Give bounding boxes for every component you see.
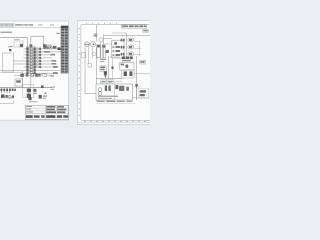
relay K1 box — [14, 41, 23, 47]
wire label row4 — [26, 55, 36, 58]
solenoid L1 body — [28, 97, 31, 100]
side label box — [140, 60, 146, 64]
terminal label row6 — [52, 63, 57, 65]
wire header stub — [112, 32, 127, 34]
wire row 3 — [24, 54, 53, 56]
caption text row 4 — [126, 101, 132, 102]
wire cluster feed — [110, 56, 120, 58]
title block dense cell 6 — [63, 115, 68, 118]
manifold pin 2 — [112, 50, 114, 51]
terminal strip T1 pin3 tick — [6, 91, 9, 93]
title block text r1c — [57, 106, 64, 108]
header note text 4 — [50, 24, 54, 25]
driver pair 1b — [123, 39, 125, 42]
wire drop f — [126, 33, 128, 58]
contact row9 blob b — [34, 72, 36, 75]
contact row1 blob c — [39, 48, 41, 50]
logic box 1 — [120, 62, 134, 70]
revision box C — [10, 24, 14, 27]
title block divider v1 — [44, 105, 46, 119]
contact row1 blob b — [34, 48, 36, 51]
sensor box — [88, 63, 91, 67]
relay label box a — [101, 80, 107, 84]
header sub label — [143, 29, 149, 32]
switch S1 label — [9, 46, 13, 47]
transformer coil 2 — [108, 86, 110, 91]
logic box 2 — [122, 70, 134, 78]
manifold pin 1 — [112, 46, 114, 47]
logic box 2 coil b — [129, 71, 132, 76]
revision box B text — [5, 24, 9, 25]
transformer coil 4 — [122, 86, 124, 91]
header note text 3 — [38, 24, 43, 25]
title block dense cell 1 — [26, 115, 33, 118]
terminal label row3 — [51, 54, 56, 56]
contact row7 blob b — [34, 66, 36, 69]
parts list header cell — [61, 26, 68, 28]
motor M2 lower brush — [27, 94, 31, 98]
coil O2 — [128, 45, 134, 49]
wire vertical x30 lower — [30, 77, 32, 88]
wire feeder top — [104, 35, 150, 37]
valve V1 — [39, 95, 42, 99]
transformer core — [115, 85, 118, 89]
control box text 2 — [100, 69, 104, 70]
lamp ring row1b dot — [50, 47, 51, 48]
gauge G1 — [99, 38, 103, 42]
net stub label — [57, 33, 60, 34]
wire long mid 2 — [110, 81, 122, 83]
contact row6 blob a — [26, 63, 28, 66]
pump P2 — [91, 42, 96, 47]
wire row 7 — [24, 66, 58, 68]
contact row2 ring b — [36, 51, 39, 53]
wire row 4 — [24, 57, 53, 59]
title block row line 1 — [25, 107, 68, 109]
ground lug cluster — [1, 94, 5, 98]
title block text r2b — [46, 109, 55, 111]
relay label box b — [107, 80, 113, 84]
terminal strip T1 pin2 — [3, 89, 5, 92]
dense cluster text — [122, 60, 130, 61]
spare contact tick — [45, 93, 47, 95]
contact row8 blob a — [26, 69, 28, 72]
connector J2 label — [16, 80, 21, 83]
terminal strip T1 pin6 — [14, 89, 16, 91]
inline valve symbol — [94, 34, 97, 37]
terminal strip T1 pin4 — [9, 89, 11, 92]
ground lug cluster b — [5, 95, 7, 98]
contact row5 blob c — [39, 60, 41, 62]
wire elbow — [85, 92, 96, 94]
wire label row9 — [26, 70, 36, 73]
wire out right — [132, 97, 150, 99]
terminal strip T1 pin5 — [12, 89, 14, 92]
relay label box b text — [108, 81, 112, 83]
title block dense cell 2 — [34, 115, 40, 118]
contact row6 ring — [30, 63, 33, 66]
switch pair box a — [44, 47, 46, 49]
terminal strip T1 pin1 tick — [0, 91, 3, 93]
terminal strip T1 pin3 — [6, 89, 8, 92]
revision box A — [0, 24, 3, 27]
contact row7 blob a — [26, 66, 28, 69]
terminal label row7 — [53, 66, 58, 68]
wire coil out 2 — [134, 47, 141, 49]
wire bus horizontal — [0, 87, 52, 89]
logic box 1 mark — [121, 64, 124, 66]
valve V1 label2 — [43, 98, 46, 99]
logic box 2 coil a — [124, 71, 127, 76]
sensor blob on drop h — [111, 66, 113, 69]
left ruler ticks — [78, 28, 80, 116]
title block dense cell 4 — [46, 115, 55, 118]
wire drop d — [95, 47, 97, 84]
header cell block — [122, 24, 147, 28]
pump P1 mark b — [88, 44, 89, 46]
wire label row1 — [26, 46, 36, 49]
wire vertical x22 — [21, 71, 23, 88]
contact row5 blob b — [34, 60, 36, 63]
wire long mid — [96, 78, 122, 80]
coil O1 — [128, 38, 134, 42]
header note text 1 — [15, 24, 22, 25]
header note text 2 — [23, 24, 28, 25]
terminal label row5 — [52, 60, 57, 62]
pump P1 mark a — [85, 44, 86, 46]
driver pair 3a — [121, 53, 123, 56]
title block divider v2 — [55, 105, 57, 113]
parts list dense text body — [61, 29, 68, 73]
wire bottom left L — [0, 100, 14, 103]
switch pair box b — [46, 47, 48, 49]
sheet 2 (right schematic page) — [77, 21, 152, 125]
control box text 1 — [100, 67, 105, 68]
tag label right — [51, 75, 54, 76]
note text small — [3, 97, 13, 98]
contact row3 blob c — [39, 54, 41, 56]
lamp ring row1b — [49, 46, 52, 49]
driver pair 2b — [123, 46, 125, 49]
logic box 1 core — [126, 65, 129, 68]
bus wire vertical — [30, 36, 32, 73]
manifold row 2 — [116, 50, 120, 52]
aux ring — [31, 74, 34, 77]
wire drop a — [84, 47, 86, 93]
wire row 9 — [24, 72, 59, 74]
contact row7 ring b — [36, 66, 39, 68]
power unit text row 2 — [98, 98, 112, 99]
wire row 6 — [14, 63, 58, 65]
wire top bracket — [31, 36, 44, 44]
contact row7 ring — [30, 66, 33, 69]
contact row3 blob a — [26, 54, 28, 57]
terminal label row9 — [53, 72, 58, 74]
contact row4 ring b — [36, 57, 39, 59]
driver blob 3 — [114, 42, 117, 44]
title note text — [1, 32, 13, 33]
motor label a — [33, 93, 36, 94]
parts list column frame — [61, 26, 68, 73]
transformer coil 1 — [105, 86, 107, 91]
connector J2 box — [15, 79, 22, 86]
aux contact c — [35, 74, 38, 77]
contact row6 ring b — [36, 63, 39, 65]
relay K1 top label — [14, 38, 20, 41]
shield lug — [12, 95, 14, 98]
wire drop g — [108, 56, 110, 79]
contact row6 blob c — [39, 63, 41, 65]
wire diode stub — [133, 86, 140, 88]
wire gauge drop — [100, 42, 102, 59]
wire tag lead — [47, 74, 53, 76]
wire drop c — [91, 47, 93, 58]
wire label row8 — [26, 67, 36, 70]
coil O1 mark — [129, 39, 133, 41]
cylinder C2 cap — [102, 45, 105, 47]
contact row4 ring — [30, 56, 33, 59]
sensor under pump — [93, 53, 96, 56]
node tie row1 — [58, 47, 61, 50]
contact row3 blob b — [34, 54, 36, 57]
fuse F1 — [43, 44, 47, 47]
flag tag — [42, 74, 47, 77]
revision box B — [4, 24, 9, 27]
transformer coil 3 — [119, 86, 122, 91]
terminal strip T1 pin1 — [1, 89, 3, 92]
motor enclosure box — [23, 84, 34, 97]
reservoir box — [82, 52, 86, 57]
solenoid blob — [104, 71, 107, 75]
contact row2 ring — [30, 50, 33, 53]
note above title block — [29, 101, 38, 102]
wire coil bus vertical — [138, 41, 140, 56]
title block dense cell 5 — [57, 115, 62, 118]
side note b — [51, 89, 55, 90]
contact row1 blob a — [26, 48, 28, 51]
coil O3 mark — [129, 53, 133, 55]
title block text r3b — [46, 111, 56, 113]
wire drop e — [103, 34, 105, 58]
driver pair 3b — [123, 53, 125, 56]
contact row4 blob c — [39, 57, 41, 59]
title block text r3c — [57, 111, 65, 113]
aux contact b — [26, 74, 29, 77]
inner frame bottom line — [81, 119, 150, 121]
inline block — [106, 50, 109, 53]
bottom ruler ticks — [84, 121, 146, 122]
cylinder C1 — [97, 45, 100, 58]
wire row 2 — [24, 51, 61, 53]
relay K1 contact — [20, 44, 23, 47]
side label text — [140, 61, 144, 63]
contact row5 ring b — [36, 60, 39, 62]
title block row line 3 — [25, 113, 68, 115]
contact row4 blob a — [26, 57, 28, 60]
accessory text 2 — [140, 94, 145, 96]
inner frame top line — [81, 24, 150, 26]
wire row 5 — [14, 60, 58, 62]
diode D1 — [135, 84, 139, 87]
wire label row6 — [26, 61, 36, 64]
header note text 2b — [29, 24, 34, 25]
arrow down — [104, 75, 106, 78]
driver pair 2a — [121, 46, 123, 49]
contact row9 blob a — [26, 72, 28, 75]
contact row1 ring — [30, 47, 33, 50]
contact row9 ring — [30, 72, 33, 75]
header cell text 5 — [144, 25, 147, 27]
header cell text 4 — [139, 25, 143, 27]
inner frame left line — [80, 25, 82, 121]
wire box2 out — [134, 73, 150, 75]
caption text row 3 — [117, 101, 125, 102]
title block dense cell 3 — [41, 115, 44, 118]
title block outline — [25, 105, 68, 119]
manifold row 3 — [116, 54, 120, 56]
parts list speckles — [62, 31, 67, 70]
wire aux row — [14, 74, 42, 76]
power unit divider — [113, 84, 115, 100]
wire link mid — [104, 43, 112, 45]
label stack b — [100, 61, 104, 62]
coil O3 — [128, 52, 134, 56]
spare contact blob — [41, 86, 44, 89]
switch S1 — [9, 49, 11, 51]
manifold row 1 — [116, 46, 120, 48]
power unit circle a — [98, 88, 102, 92]
accessory dashed box — [138, 88, 148, 98]
wire row 8 — [0, 70, 60, 72]
pump P2 mark — [93, 44, 95, 46]
wire coil out 1 — [134, 40, 141, 42]
title block text r1b — [46, 106, 55, 108]
wire drop main — [95, 25, 97, 42]
wire label row7 — [26, 64, 36, 67]
row1 top label — [45, 44, 51, 47]
caption text row 1 — [97, 101, 105, 102]
contact row2 blob b — [34, 51, 36, 54]
side note a — [51, 87, 56, 88]
title block text r2 — [27, 109, 32, 110]
rectifier blob — [126, 87, 129, 91]
dense cluster chip b — [126, 57, 129, 60]
sheet 1 (left schematic page) — [0, 21, 69, 120]
caption underline — [96, 102, 135, 104]
top ruler ticks — [86, 23, 117, 24]
contact row8 ring — [30, 69, 33, 72]
wire row 1 — [24, 48, 61, 50]
coil O2 mark — [129, 46, 133, 48]
cylinder C1 cap — [97, 45, 100, 47]
fuse F2 — [30, 44, 33, 47]
revision box A text — [1, 24, 3, 25]
contact row3 ring — [30, 53, 33, 56]
header cell text 2 — [129, 25, 134, 27]
parts list row separators — [61, 30, 68, 72]
header cell text 1 — [122, 25, 128, 27]
wire label row5 — [26, 58, 36, 61]
contact row6 blob b — [34, 63, 36, 66]
header rule line — [0, 26, 69, 28]
cylinder C2 — [102, 45, 105, 58]
revision box C text — [11, 24, 14, 25]
contact row2 blob a — [26, 51, 28, 54]
aux contact a — [20, 74, 23, 77]
manifold pin 3 — [112, 54, 114, 55]
label chip row1 — [53, 46, 57, 49]
diode D1 lead — [136, 84, 138, 100]
power unit box — [96, 84, 132, 100]
accessory text 1 — [140, 90, 146, 92]
component box M1 — [3, 53, 14, 72]
wire drop h — [111, 58, 113, 79]
driver pair 1a — [121, 39, 123, 42]
power unit circle b — [98, 92, 102, 96]
contact row4 blob b — [34, 57, 36, 60]
valve V1 label — [43, 95, 47, 96]
title block text r3 — [27, 112, 33, 113]
dense cluster chip a — [122, 57, 126, 60]
motor M2 upper brush — [27, 89, 31, 93]
wire coil out 3 — [134, 53, 141, 55]
title block text r2c — [57, 109, 66, 111]
caption text row 2 — [106, 101, 115, 102]
dense cluster chip c — [130, 57, 133, 60]
motor M2 shaft — [28, 88, 30, 100]
contact row5 blob a — [26, 60, 28, 63]
wire label row3 — [26, 52, 36, 55]
wire drop b — [88, 47, 90, 63]
bottom ruler line — [77, 122, 150, 124]
motor aux blob — [33, 89, 36, 92]
title block row line 2 — [25, 110, 68, 112]
contact row3 ring b — [36, 54, 39, 56]
contact row2 blob c — [39, 51, 41, 53]
wire label row2 — [26, 49, 36, 52]
contact row7 blob c — [39, 66, 41, 68]
power unit text row — [98, 96, 118, 97]
enclosure box E1 outline — [0, 38, 27, 71]
contact row5 ring — [30, 60, 33, 63]
manifold box — [112, 40, 124, 58]
terminal label row2 — [44, 51, 50, 53]
inline valve dot — [95, 35, 97, 36]
pump P1 — [85, 42, 90, 47]
wire drop i — [136, 56, 138, 84]
terminal strip T1 pin2 tick — [3, 91, 6, 93]
control box CB — [100, 66, 106, 71]
contact row8 blob b — [34, 69, 36, 72]
header sub label text — [143, 30, 147, 31]
wire shelf line — [0, 72, 22, 74]
contact row1 ring b — [36, 48, 39, 50]
relay label box a text — [101, 81, 105, 83]
aux contact d — [38, 74, 40, 77]
shield ring — [8, 95, 11, 98]
parts list column divider — [64, 29, 66, 73]
label stack a — [100, 59, 106, 60]
header cell text 3 — [134, 25, 138, 27]
terminal strip T1 pin4 tick — [8, 91, 11, 93]
wire link top — [104, 38, 112, 40]
title block text r1 — [27, 106, 33, 107]
